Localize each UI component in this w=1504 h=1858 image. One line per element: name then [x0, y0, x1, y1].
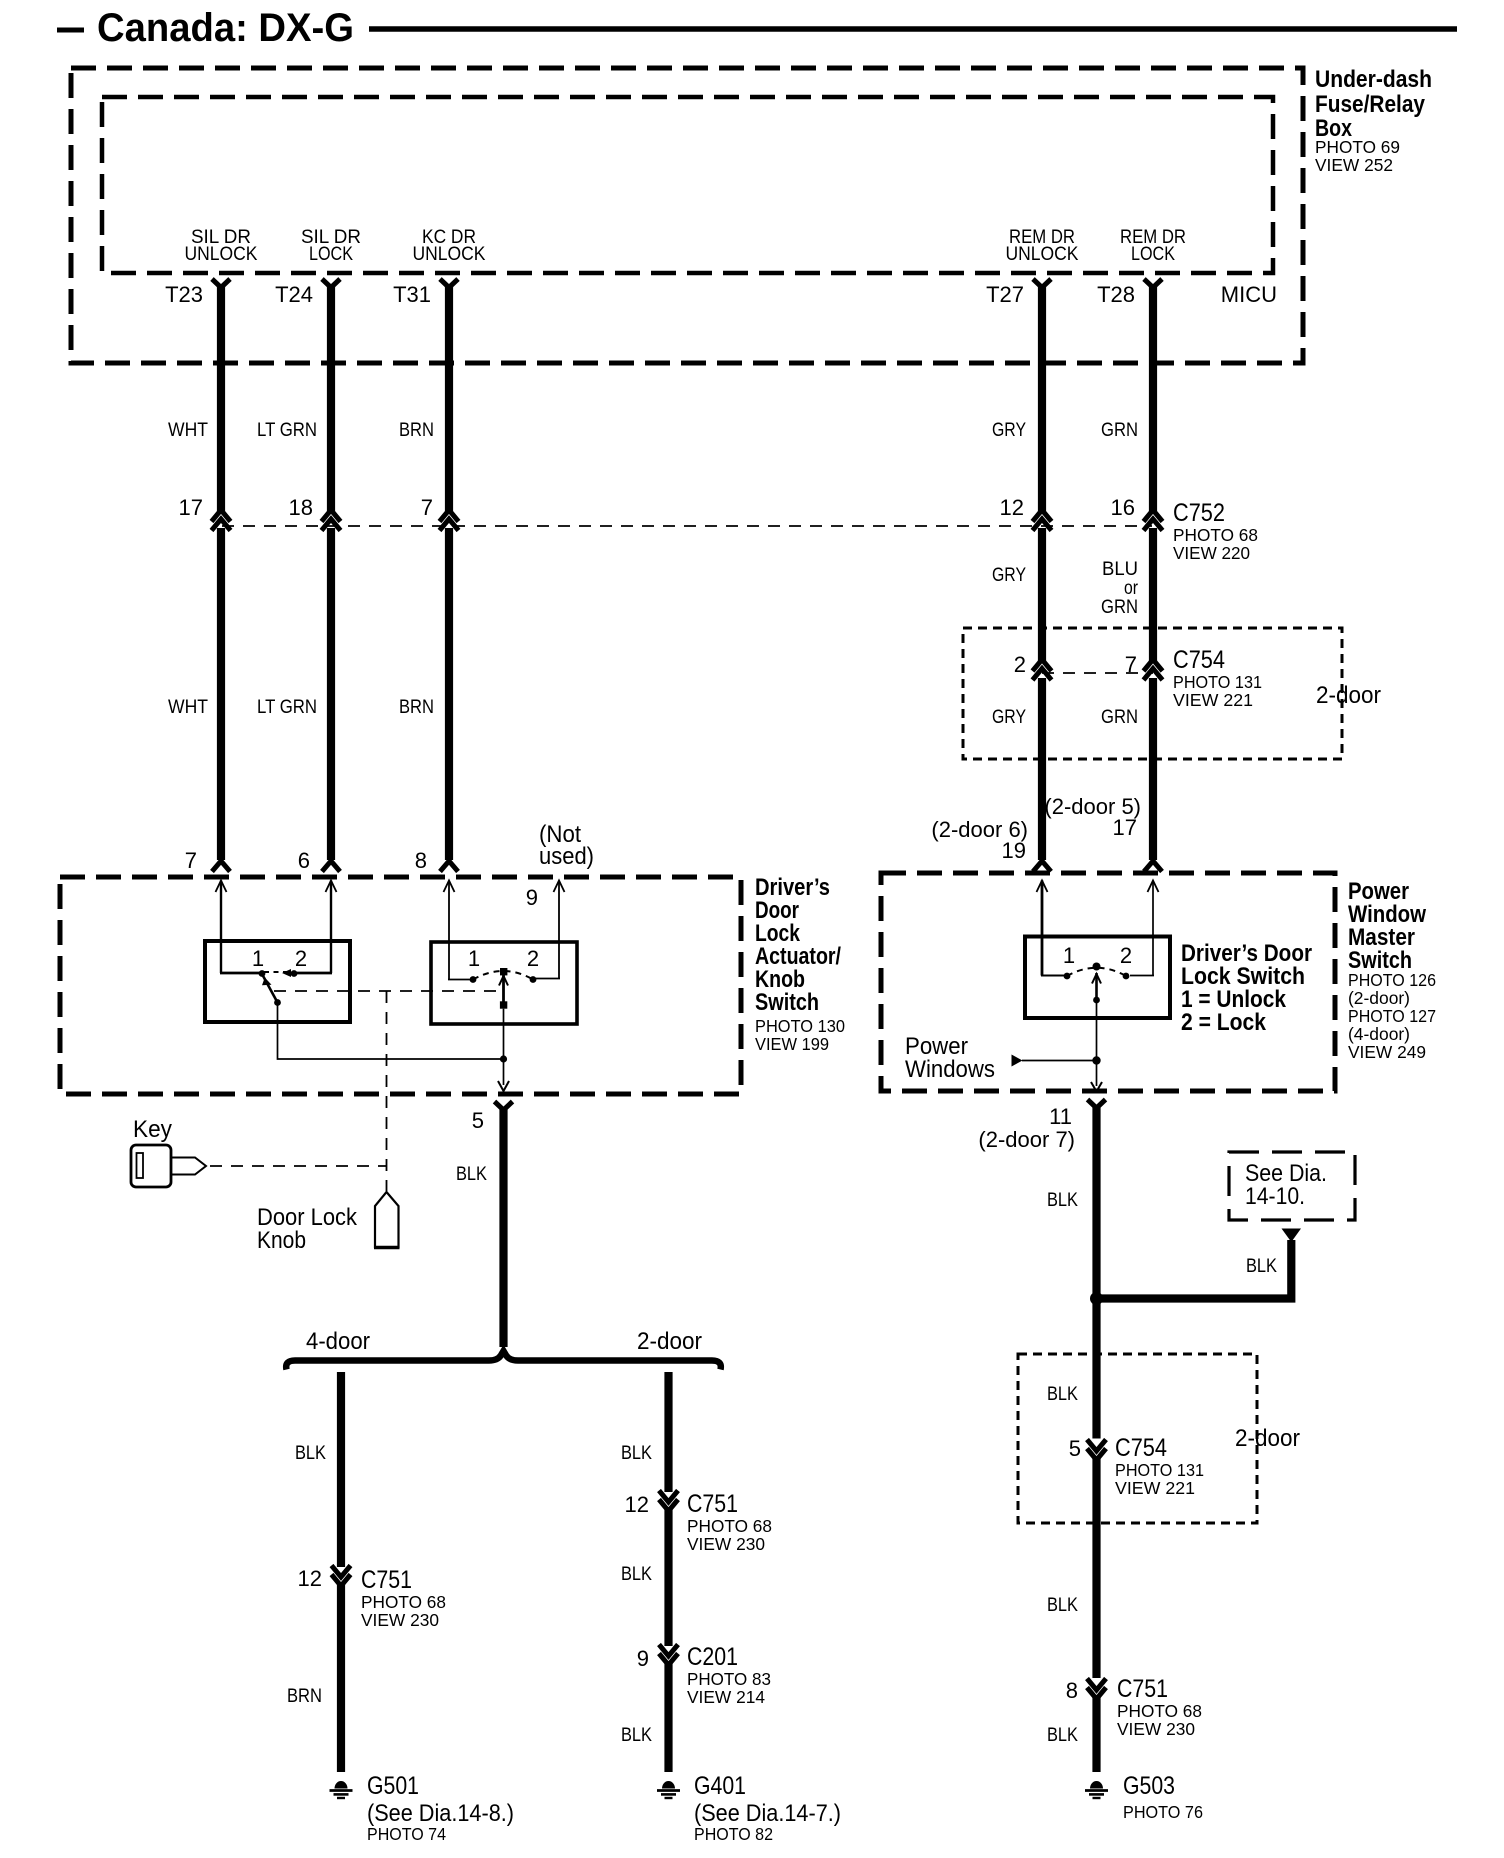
svg-text:12: 12 [625, 1492, 649, 1517]
C754 connector level dashed line [1042, 672, 1153, 674]
key cylinder switch contact 2 [530, 976, 537, 983]
connector C751 designator 2-door [687, 1490, 772, 1554]
svg-text:BLK: BLK [621, 1725, 652, 1746]
svg-text:6: 6 [298, 848, 310, 873]
svg-text:16: 16 [1111, 495, 1135, 520]
svg-text:PHOTO 74: PHOTO 74 [367, 1824, 446, 1844]
svg-text:T24: T24 [275, 282, 313, 307]
svg-text:2: 2 [1120, 943, 1132, 968]
svg-text:UNLOCK: UNLOCK [185, 244, 258, 265]
svg-text:14-10.: 14-10. [1245, 1183, 1305, 1210]
svg-text:5: 5 [1069, 1436, 1081, 1461]
svg-text:BRN: BRN [399, 697, 434, 718]
svg-text:Canada: DX-G: Canada: DX-G [97, 6, 354, 50]
svg-text:Under-dash: Under-dash [1315, 66, 1432, 93]
wire LT GRN lower segment [327, 528, 335, 860]
svg-text:1: 1 [468, 946, 480, 971]
knob switch common lead down and to junction [278, 1003, 504, 1060]
driver's door lock actuator/knob switch dashed box [60, 877, 741, 1094]
driver's door lock knob switch body [205, 941, 350, 1022]
connector fork at left box pin 5 [495, 1102, 513, 1111]
svg-text:PHOTO 83: PHOTO 83 [687, 1669, 771, 1689]
knob switch alternate position dashed link with arrow [264, 969, 291, 977]
svg-text:12: 12 [298, 1566, 322, 1591]
svg-text:Switch: Switch [755, 989, 819, 1016]
svg-text:PHOTO 126: PHOTO 126 [1348, 970, 1436, 990]
svg-text:BRN: BRN [287, 1686, 322, 1707]
connector C751 pin 12 symbol 4-door [332, 1566, 351, 1587]
key cylinder switch pivot square [500, 968, 507, 975]
under-dash fuse/relay box label [1315, 66, 1432, 175]
connector fork at right box pin 19 [1033, 861, 1051, 872]
svg-text:T27: T27 [986, 282, 1024, 307]
wire continuation arrowhead to see dia 14-10 [1282, 1229, 1302, 1243]
svg-text:12: 12 [1000, 495, 1024, 520]
driver's door key cylinder switch body [431, 942, 577, 1024]
wire BRN lower segment [445, 528, 453, 860]
knob switch contact 1 [259, 970, 266, 977]
svg-text:2-door: 2-door [1316, 682, 1381, 709]
svg-text:C751: C751 [361, 1566, 412, 1594]
knob switch position labels 1 2 [252, 946, 307, 971]
4-door / 2-door split bar [286, 1351, 721, 1370]
svg-text:VIEW 252: VIEW 252 [1315, 155, 1393, 175]
pin 6 entry arrow and lead into knob switch [297, 881, 337, 974]
connector C201 designator [687, 1643, 771, 1707]
connector C754 pin 7 symbol [1144, 660, 1163, 681]
svg-text:LT GRN: LT GRN [257, 697, 317, 718]
connector C752 pin 18 symbol [322, 510, 341, 531]
C752 connector level dashed line [222, 525, 1152, 527]
wire T27 upper GRY segment [1038, 284, 1046, 511]
title rule line [369, 26, 1457, 32]
svg-text:C754: C754 [1115, 1434, 1167, 1462]
driver's door lock switch body [1025, 937, 1170, 1019]
key mechanical dashed link [210, 1165, 387, 1167]
connector C754 pin 5 symbol [1087, 1440, 1106, 1461]
connector C752 pin 17 symbol [212, 510, 231, 531]
svg-text:BLK: BLK [1047, 1384, 1078, 1405]
wire BLK 4-door branch upper [337, 1372, 345, 1567]
see dia 14-10 dashed box [1229, 1152, 1355, 1220]
svg-text:T28: T28 [1097, 282, 1135, 307]
wire BLU or GRN middle segment [1149, 528, 1157, 661]
svg-text:LOCK: LOCK [1131, 244, 1175, 265]
svg-text:T31: T31 [393, 282, 431, 307]
svg-text:1: 1 [252, 946, 264, 971]
pin T23 name SIL DR UNLOCK [185, 227, 258, 265]
wire BLK branch from junction to see dia 14-10 [1100, 1240, 1291, 1299]
connector fork at right box pin 17 [1144, 861, 1162, 872]
pin T24 name SIL DR LOCK [301, 227, 361, 265]
svg-text:GRY: GRY [992, 565, 1026, 586]
lock switch position labels 1 2 [1063, 943, 1132, 968]
svg-text:PHOTO 130: PHOTO 130 [755, 1016, 845, 1036]
svg-text:1: 1 [1063, 943, 1075, 968]
svg-text:G503: G503 [1123, 1772, 1175, 1800]
svg-text:2-door: 2-door [637, 1328, 702, 1355]
svg-text:C754: C754 [1173, 646, 1225, 674]
svg-text:BLK: BLK [621, 1443, 652, 1464]
svg-text:WHT: WHT [168, 697, 208, 718]
svg-text:PHOTO 68: PHOTO 68 [1173, 525, 1258, 545]
label (Not used) [539, 821, 594, 870]
2-door region dashed box around C754 [963, 628, 1342, 759]
pin 5 exit arrow [498, 1081, 509, 1091]
ground G501 symbol [330, 1781, 353, 1798]
connector fork at pin T31 [440, 279, 458, 288]
ground G503 symbol [1085, 1781, 1108, 1798]
svg-text:Key: Key [133, 1116, 172, 1143]
connector fork at pin T23 [212, 279, 230, 288]
svg-text:T23: T23 [165, 282, 203, 307]
key cylinder switch common lead to junction [503, 1009, 505, 1085]
pin 19 entry arrow and lead into lock switch [1037, 881, 1065, 976]
svg-text:G501: G501 [367, 1772, 419, 1800]
see dia 14-10 label [1245, 1160, 1327, 1210]
svg-text:PHOTO 68: PHOTO 68 [687, 1516, 772, 1536]
svg-text:PHOTO 76: PHOTO 76 [1123, 1802, 1203, 1822]
lock switch common lead to pin 11 [1096, 1000, 1098, 1086]
svg-text:GRY: GRY [992, 420, 1026, 441]
svg-text:BLK: BLK [295, 1443, 326, 1464]
svg-text:WHT: WHT [168, 420, 208, 441]
driver's door lock switch label [1181, 940, 1312, 1036]
junction node of switch outputs [500, 1055, 507, 1062]
power windows junction node [1092, 1056, 1100, 1064]
svg-text:8: 8 [1066, 1678, 1078, 1703]
wire BLK between C754 and C751 [1092, 1458, 1100, 1678]
pin 17 entry arrow and lead into lock switch [1130, 881, 1159, 976]
lock switch contact 2 [1123, 973, 1130, 980]
wire color label BLU or GRN [1101, 559, 1139, 618]
svg-text:7: 7 [421, 495, 433, 520]
wire BLK 2-door branch upper [664, 1372, 672, 1492]
connector fork at left box pin 8 [440, 861, 458, 872]
svg-text:GRN: GRN [1101, 707, 1138, 728]
connector C751 pin 12 symbol 2-door [659, 1491, 678, 1512]
svg-text:8: 8 [415, 848, 427, 873]
connector C752 pin 16 symbol [1144, 510, 1163, 531]
svg-text:9: 9 [526, 885, 538, 910]
svg-text:5: 5 [472, 1108, 484, 1133]
power windows tap arrow and lead [1012, 1055, 1097, 1067]
connector C754 pin 5 designator [1115, 1434, 1204, 1498]
under-dash fuse/relay box outer dashed boundary [71, 68, 1303, 363]
connector fork at left box pin 6 [322, 861, 340, 872]
door lock knob symbol [375, 1192, 399, 1248]
svg-text:PHOTO 69: PHOTO 69 [1315, 137, 1400, 157]
svg-text:G401: G401 [694, 1772, 746, 1800]
svg-text:(See Dia.14-8.): (See Dia.14-8.) [367, 1800, 514, 1827]
svg-text:BLK: BLK [1047, 1725, 1078, 1746]
lock switch pivot contact [1093, 963, 1101, 971]
connector C752 pin 12 symbol [1033, 510, 1052, 531]
connector fork at pin T24 [322, 279, 340, 288]
knob switch contact 2 [291, 970, 298, 977]
pin T28 name REM DR LOCK [1120, 227, 1186, 265]
wire T23 upper WHT segment [217, 284, 225, 511]
svg-text:17: 17 [1113, 815, 1137, 840]
connector C752 pin 7 symbol [440, 510, 459, 531]
junction node on BLK wire [1090, 1292, 1103, 1305]
svg-text:BLK: BLK [1047, 1190, 1078, 1211]
svg-text:BLK: BLK [456, 1164, 487, 1185]
wire T31 upper BRN segment [445, 284, 453, 511]
connector fork at pin T28 [1144, 279, 1162, 288]
pin 7 entry arrow and lead into knob switch [216, 881, 260, 974]
MICU inner dashed boundary [102, 97, 1273, 273]
svg-text:(4-door): (4-door) [1348, 1024, 1410, 1044]
knob switch lever toward contact 1 [262, 974, 278, 1003]
svg-text:VIEW 220: VIEW 220 [1173, 543, 1250, 563]
lever mechanical dashed link horizontal [274, 990, 504, 992]
pin 11 exit arrow [1091, 1082, 1102, 1092]
svg-text:UNLOCK: UNLOCK [1006, 244, 1079, 265]
connector fork at pin T27 [1033, 279, 1051, 288]
key cylinder switch position labels 1 2 [468, 946, 539, 971]
power window master switch dashed box [881, 873, 1335, 1091]
lock switch common stem [1095, 973, 1098, 1000]
knob switch lever end contact [274, 999, 281, 1006]
key cylinder switch common stem [502, 975, 505, 1008]
svg-text:Fuse/Relay: Fuse/Relay [1315, 91, 1426, 118]
lock switch lever dashed arc [1067, 968, 1126, 976]
connector C751 pin 8 designator [1117, 1675, 1202, 1739]
svg-text:4-door: 4-door [306, 1328, 370, 1355]
svg-text:VIEW 230: VIEW 230 [1117, 1719, 1195, 1739]
svg-text:or: or [1124, 578, 1139, 599]
pin 9 entry arrow and lead into key cylinder switch [536, 881, 565, 979]
svg-text:VIEW 199: VIEW 199 [755, 1034, 829, 1054]
svg-text:7: 7 [185, 848, 197, 873]
svg-text:VIEW 249: VIEW 249 [1348, 1042, 1426, 1062]
svg-text:19: 19 [1002, 838, 1026, 863]
svg-text:PHOTO 68: PHOTO 68 [1117, 1701, 1202, 1721]
key cylinder switch arrow to pivot [499, 976, 508, 986]
pin T27 name REM DR UNLOCK [1006, 227, 1079, 265]
svg-text:VIEW 221: VIEW 221 [1173, 690, 1253, 710]
svg-text:2-door: 2-door [1235, 1425, 1300, 1452]
svg-text:GRN: GRN [1101, 420, 1138, 441]
wire GRN lower segment to power window master switch [1149, 678, 1157, 860]
svg-text:PHOTO 131: PHOTO 131 [1173, 672, 1262, 692]
driver's door lock actuator/knob switch label [755, 874, 845, 1054]
knob mechanical dashed link vertical [386, 991, 388, 1191]
connector fork at left box pin 7 [212, 861, 230, 872]
svg-text:2: 2 [295, 946, 307, 971]
power windows label [905, 1033, 995, 1083]
lock switch lower contact [1093, 997, 1100, 1004]
wire GRY lower segment to power window master switch [1038, 678, 1046, 860]
svg-text:LT GRN: LT GRN [257, 420, 317, 441]
svg-text:BLK: BLK [621, 1564, 652, 1585]
svg-text:GRN: GRN [1101, 597, 1138, 618]
title dash [57, 28, 84, 33]
wire BRN to ground G501 [337, 1584, 345, 1772]
svg-text:BLU: BLU [1102, 559, 1138, 580]
svg-text:C751: C751 [687, 1490, 738, 1518]
svg-text:C751: C751 [1117, 1675, 1168, 1703]
pin 8 entry arrow and lead into key cylinder switch [444, 881, 471, 980]
ground G401 symbol [657, 1781, 680, 1798]
2-door region dashed box around C754 pin 5 [1018, 1354, 1257, 1523]
svg-text:BLK: BLK [1246, 1256, 1277, 1277]
svg-text:C201: C201 [687, 1643, 738, 1671]
svg-text:UNLOCK: UNLOCK [413, 244, 486, 265]
key cylinder switch contact 1 [470, 976, 477, 983]
wire WHT lower segment to door lock knob switch [217, 528, 225, 860]
svg-text:GRY: GRY [992, 707, 1026, 728]
ground G501 designator [367, 1772, 514, 1844]
svg-text:2: 2 [1014, 652, 1026, 677]
lock switch arrow to pivot [1092, 974, 1101, 984]
svg-text:18: 18 [289, 495, 313, 520]
wire BLK from pin 11 down [1092, 1105, 1100, 1439]
svg-text:PHOTO 68: PHOTO 68 [361, 1592, 446, 1612]
svg-text:Knob: Knob [257, 1227, 306, 1254]
ground G503 designator [1123, 1772, 1203, 1822]
key cylinder switch lower square [500, 1001, 507, 1008]
wire GRY middle segment [1038, 528, 1046, 661]
wire BLK to ground G401 [664, 1663, 672, 1772]
svg-text:VIEW 214: VIEW 214 [687, 1687, 765, 1707]
connector C752 designator [1173, 499, 1258, 563]
svg-text:MICU: MICU [1221, 282, 1277, 307]
door lock knob label [257, 1204, 358, 1254]
svg-text:VIEW 230: VIEW 230 [687, 1534, 765, 1554]
svg-text:PHOTO 82: PHOTO 82 [694, 1824, 773, 1844]
wire T28 upper GRN segment [1149, 284, 1157, 511]
svg-text:C752: C752 [1173, 499, 1225, 527]
svg-text:(2-door 7): (2-door 7) [978, 1127, 1075, 1152]
connector C754 designator [1173, 646, 1262, 710]
connector C754 pin 2 symbol [1033, 660, 1052, 681]
wire BLK from pin 5 to split bar [499, 1107, 507, 1347]
svg-text:11: 11 [1049, 1104, 1072, 1129]
wire BLK between C751 and C201 [664, 1509, 672, 1646]
svg-text:9: 9 [637, 1646, 649, 1671]
connector C751 designator 4-door [361, 1566, 446, 1630]
svg-text:(2-door): (2-door) [1348, 988, 1410, 1008]
svg-text:used): used) [539, 843, 594, 870]
svg-text:BRN: BRN [399, 420, 434, 441]
power window master switch label [1348, 878, 1436, 1062]
svg-text:17: 17 [179, 495, 203, 520]
svg-text:Windows: Windows [905, 1056, 995, 1083]
svg-text:2: 2 [527, 946, 539, 971]
svg-text:(See Dia.14-7.): (See Dia.14-7.) [694, 1800, 841, 1827]
connector fork at right box pin 11 [1088, 1100, 1106, 1109]
svg-text:VIEW 221: VIEW 221 [1115, 1478, 1195, 1498]
connector C201 pin 9 symbol [659, 1645, 678, 1666]
svg-text:BLK: BLK [1047, 1595, 1078, 1616]
key cylinder switch lever dashed arc [473, 971, 533, 980]
svg-text:2 = Lock: 2 = Lock [1181, 1009, 1267, 1036]
lock switch contact 1 [1064, 973, 1071, 980]
svg-text:PHOTO 127: PHOTO 127 [1348, 1006, 1436, 1026]
svg-text:LOCK: LOCK [309, 244, 353, 265]
ground G401 designator [694, 1772, 841, 1844]
key symbol [131, 1145, 206, 1187]
pin T31 name KC DR UNLOCK [413, 227, 486, 265]
connector C751 pin 8 symbol [1087, 1679, 1106, 1700]
svg-text:VIEW 230: VIEW 230 [361, 1610, 439, 1630]
wire T24 upper LT GRN segment [327, 284, 335, 511]
wire BLK to ground G503 [1092, 1697, 1100, 1772]
svg-text:PHOTO 131: PHOTO 131 [1115, 1460, 1204, 1480]
